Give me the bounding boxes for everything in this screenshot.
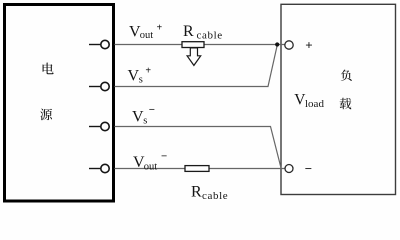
resistor Rcable top	[182, 42, 204, 48]
svg-text:R: R	[183, 23, 194, 40]
wire Vs- with diagonal to - node	[115, 127, 282, 168]
svg-text:+: +	[157, 23, 163, 34]
label Vout-	[133, 151, 167, 173]
svg-text:s: s	[143, 116, 147, 127]
label - polarity	[305, 161, 312, 176]
svg-text:−: −	[161, 151, 167, 163]
label + polarity	[305, 38, 312, 53]
terminal Vs- on source box	[89, 122, 109, 130]
svg-text:out: out	[144, 161, 158, 172]
current direction block arrow	[187, 48, 201, 66]
svg-text:out: out	[140, 30, 154, 41]
terminal + on load box	[285, 41, 293, 49]
terminal - on load box	[285, 165, 293, 173]
label 电 (power)	[43, 63, 54, 75]
label 负 (load char 1)	[341, 70, 352, 81]
svg-text:+: +	[305, 38, 312, 53]
label Vload	[294, 91, 324, 110]
label Rcable top	[183, 23, 223, 41]
label Rcable bottom	[191, 184, 228, 202]
svg-text:cable: cable	[197, 29, 223, 41]
label Vout+	[129, 23, 163, 42]
svg-text:s: s	[139, 75, 143, 86]
svg-text:cable: cable	[202, 190, 228, 202]
label 源 (source)	[40, 109, 52, 121]
label 载 (load char 2)	[340, 98, 352, 110]
svg-text:load: load	[305, 98, 324, 110]
svg-text:−: −	[149, 104, 155, 116]
svg-text:+: +	[145, 66, 151, 77]
wire Vout+ (top)	[115, 44, 286, 46]
svg-text:−: −	[305, 161, 312, 176]
svg-text:R: R	[191, 184, 202, 201]
label Vs+	[128, 66, 152, 86]
svg-text:V: V	[132, 108, 144, 125]
load box	[281, 4, 396, 194]
wire Vout- (bottom)	[115, 168, 286, 170]
terminal Vs+ on source box	[89, 82, 109, 90]
label Vs-	[132, 104, 155, 127]
wire Vs+ with diagonal to + node	[115, 45, 278, 86]
terminal Vout- on source box	[89, 164, 109, 172]
terminal Vout+ on source box	[89, 40, 109, 48]
resistor Rcable bottom	[185, 166, 209, 172]
svg-text:V: V	[128, 67, 140, 84]
junction node at + terminal	[275, 42, 279, 46]
power source box	[5, 5, 114, 202]
